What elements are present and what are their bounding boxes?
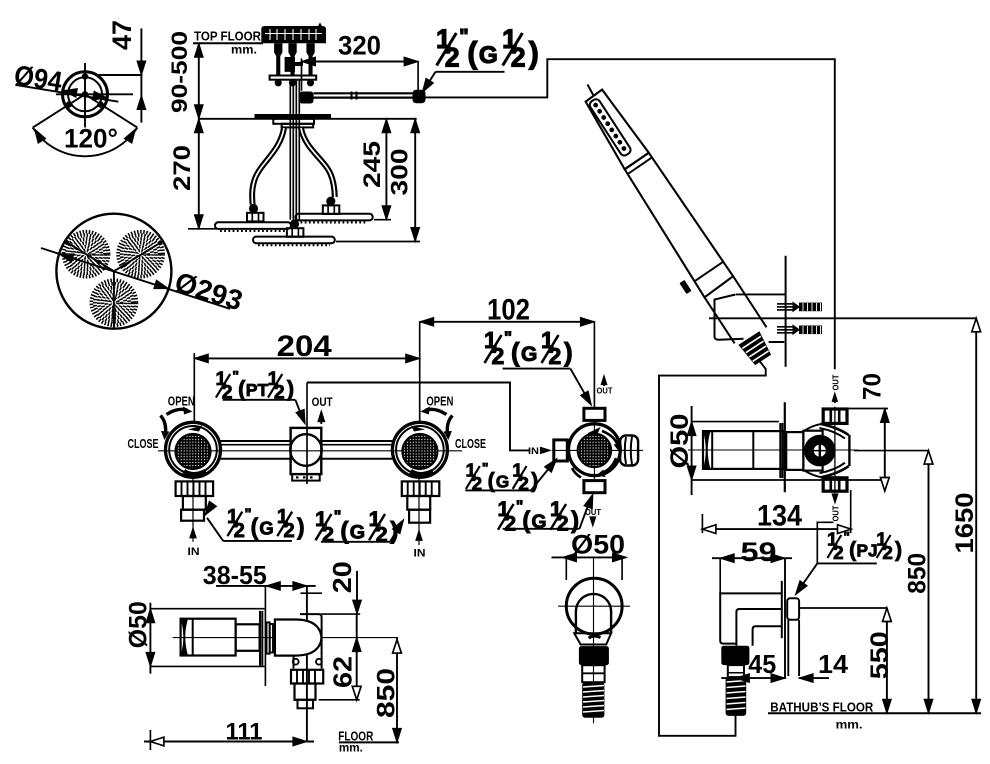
dim 245 line (385, 119, 387, 220)
center body circle (290, 434, 322, 466)
dia label leader O94 (16, 85, 119, 102)
bottom OUT arrow side (834, 494, 836, 499)
top floor line (193, 42, 263, 44)
hose connector 2 (288, 43, 296, 75)
left valve outer ring (166, 422, 221, 477)
dim 14 line (799, 677, 829, 679)
handle end cap dark (703, 431, 711, 469)
label 1/2"(G 1/2) diverter top (484, 327, 573, 369)
svg-text:45: 45 (748, 649, 776, 679)
dim 102 line (420, 321, 595, 323)
svg-text:IN: IN (528, 446, 539, 457)
wall supply fitting (787, 598, 799, 620)
svg-text:mm.: mm. (231, 43, 257, 57)
stippled head bottom (91, 280, 136, 325)
diverter rotation arrow lower-left (572, 468, 581, 478)
ceiling spout flange outer circle (63, 72, 108, 117)
svg-text:245: 245 (359, 141, 386, 188)
stippled head top-left (64, 232, 109, 277)
hose nut hatched (738, 331, 773, 366)
left curved drop pipe (252, 128, 284, 205)
manifold ball 1 (275, 79, 282, 86)
dim 59 extension left / elbow left edge (719, 558, 721, 593)
bracket clamp (715, 295, 785, 343)
svg-text:1650: 1650 (951, 493, 979, 554)
diverter outer ring (569, 424, 621, 476)
svg-text:111: 111 (226, 719, 263, 746)
handle cylinder (703, 431, 784, 469)
pipe body to right valve (321, 440, 392, 442)
wand bottom seam (695, 261, 724, 281)
bracket top line to wall (736, 293, 786, 295)
elbow centerline horizontal (558, 605, 630, 607)
120deg arc (33, 128, 138, 157)
left valve inner ring (169, 426, 217, 474)
svg-text:TOP FLOOR: TOP FLOOR (194, 29, 262, 44)
hose connector 1 (274, 43, 282, 75)
svg-text:62: 62 (328, 656, 358, 688)
front head nut (287, 228, 304, 237)
elbow housing behind (300, 614, 322, 656)
dim 20 line (356, 571, 358, 614)
label 1/2"(G 1/2) diverter left (466, 460, 539, 494)
extension line top dot level (95, 74, 143, 76)
dim 320 extension left (301, 58, 303, 90)
dim 270 line (198, 119, 200, 229)
dim 62 extension (319, 699, 360, 701)
crosshair vertical (84, 63, 86, 128)
side view centerline (688, 449, 858, 451)
elbow hose thread (726, 677, 747, 716)
diverter side handle (620, 435, 638, 465)
left valve nipple (183, 496, 206, 510)
dim 320 line (302, 61, 419, 63)
right valve inner ring (396, 426, 444, 474)
label leader arrow to pipe elbow (424, 72, 436, 91)
svg-text:300: 300 (387, 149, 414, 196)
small screw on wand (679, 280, 691, 294)
dia leader O293 (41, 248, 230, 309)
upper union arcs (821, 424, 849, 435)
dim O50 arrows (552, 556, 627, 558)
crosshair horizontal (56, 93, 133, 95)
diverter centerline horizontal (552, 449, 643, 451)
svg-text:47: 47 (107, 20, 137, 50)
elbow bottom small circles (293, 659, 299, 665)
dim 850 line (928, 451, 930, 714)
label 1/2"(G 1/2) under left valve (227, 506, 305, 542)
O50 box top line (692, 421, 779, 423)
handle seam 1 (711, 431, 713, 469)
OUT up arrow (320, 415, 322, 424)
hand shower wand head (586, 90, 649, 170)
valve dome body (275, 620, 322, 656)
dim 90-500 line (198, 43, 200, 119)
dim 70 line (884, 409, 886, 492)
close arrow right (447, 416, 452, 434)
valve neck rings (267, 622, 270, 653)
dim 320 extension right (417, 62, 419, 91)
stippled head top-right (118, 232, 163, 277)
front head ball joint (290, 219, 299, 228)
handle neck (236, 624, 260, 651)
elbow hose neck (582, 665, 604, 682)
body right edge (848, 435, 850, 466)
diverter centerline vertical (593, 322, 595, 409)
head group outline circle O293 (56, 214, 171, 329)
riser pipe bundle (290, 80, 299, 115)
right head nut (323, 205, 340, 214)
pipe left valve to body (220, 440, 290, 442)
left IN arrow (192, 476, 194, 542)
120deg spread line right (85, 94, 137, 127)
dim 300 line (414, 119, 416, 242)
wall plate (259, 611, 261, 666)
dim 20 reference upper (301, 592, 323, 594)
svg-text:CLOSE: CLOSE (128, 437, 159, 451)
manifold bar (270, 76, 317, 80)
ceiling line (199, 118, 417, 120)
handle cylinder (181, 619, 236, 656)
svg-text:320: 320 (338, 31, 381, 61)
120deg spread line left (33, 94, 85, 127)
manifold ball 2 (289, 79, 296, 86)
label 1/2"(G 1/2) under right valve (315, 506, 398, 546)
outlet tail (298, 700, 314, 709)
dim 134 line (702, 528, 851, 530)
dim 550 reference line (800, 607, 888, 609)
spoke to bottom head (113, 271, 115, 329)
spoke to left head (65, 241, 114, 271)
center body vertical line (306, 383, 308, 485)
bracket height reference line (709, 317, 976, 319)
dim 134 extension right (850, 490, 852, 533)
label underline (436, 71, 505, 73)
close arrow left (161, 416, 166, 434)
wall plate lines (781, 581, 783, 638)
top outlet dot (82, 73, 88, 79)
tiny up arrow (834, 396, 836, 403)
wall screw upper (777, 301, 822, 312)
svg-text:270: 270 (169, 145, 196, 191)
left head nut (247, 213, 264, 222)
dim 111 tick (149, 730, 151, 750)
flexible hose wire route (659, 359, 766, 736)
right head ball joint (326, 197, 335, 206)
right valve outer ring (392, 422, 447, 477)
diverter rotation arrow upper (602, 431, 618, 446)
svg-text:102: 102 (487, 294, 530, 327)
svg-text:90-500: 90-500 (167, 31, 192, 113)
right valve nipple (407, 496, 430, 510)
dimension line 47 vertical (140, 28, 142, 122)
label 1/2"(PT 1/2) (216, 369, 295, 404)
right knob indicator (411, 426, 425, 432)
ceiling flange upper (273, 119, 314, 124)
left knob indicator (188, 426, 202, 432)
elbow inner arch (576, 594, 611, 633)
dim 204 line (194, 357, 419, 359)
svg-text:850: 850 (373, 668, 401, 718)
lower union arcs (821, 466, 849, 477)
valve neck box (786, 432, 803, 470)
wand seam 2 (628, 158, 652, 174)
wall line bottom-left view (306, 585, 308, 742)
svg-text:IN: IN (188, 546, 200, 558)
right valve knob (402, 434, 437, 469)
wire faucet OUT to diverter (307, 383, 529, 451)
wand spray face (588, 98, 632, 158)
svg-text:134: 134 (757, 500, 802, 533)
ceiling plate (255, 114, 332, 119)
valve dark knob circle (804, 435, 836, 467)
svg-text:BATHUB’S FLOOR: BATHUB’S FLOOR (770, 700, 874, 715)
pipe end elbow connector (413, 90, 426, 103)
ceiling spout flange inner circle (68, 77, 102, 111)
svg-text:OPEN: OPEN (168, 395, 195, 409)
right valve tail (409, 510, 430, 523)
svg-text:120°: 120° (64, 124, 118, 154)
label 1/2"(PJ 1/2) (827, 529, 902, 563)
spoke to right head (114, 241, 163, 271)
wall elbow outer contour (720, 593, 782, 643)
mounting rail block (261, 23, 326, 44)
right shower head disc (296, 214, 373, 221)
dim 38-55 extension (264, 585, 266, 686)
svg-text:Ø50: Ø50 (666, 414, 694, 469)
label 1/2"(G 1/2) top (436, 24, 539, 73)
open arrow right (426, 409, 447, 414)
elbow centerline vertical (593, 558, 595, 723)
small dark tick (589, 636, 601, 638)
ceiling flange lower (282, 124, 314, 128)
hose connector 3 (306, 43, 314, 75)
svg-text:59: 59 (741, 537, 777, 567)
dim 70 top extension (824, 408, 888, 410)
horizontal supply pipe (314, 92, 413, 94)
svg-text:Ø50: Ø50 (125, 601, 153, 648)
O50 box top (150, 608, 264, 610)
dim 38-55 line (216, 585, 316, 587)
svg-text:mm.: mm. (339, 741, 363, 755)
svg-text:OPEN: OPEN (426, 395, 453, 409)
outlet hex nut (291, 670, 323, 684)
centerline bottom-left view (173, 637, 398, 639)
dim 20 reference lower (321, 613, 360, 615)
diverter knob indicator (587, 427, 601, 435)
svg-text:204: 204 (277, 330, 332, 363)
diverter rotation arrow lower (602, 458, 616, 473)
front shower head disc (253, 237, 335, 244)
diverter bottom port (584, 481, 605, 493)
svg-text:850: 850 (904, 553, 932, 594)
elbow trapezoid (574, 633, 611, 644)
wand shaft to hose nut (705, 297, 735, 343)
diverter knob (578, 434, 612, 468)
dim O50 line (149, 603, 151, 674)
center dot (82, 91, 88, 97)
dim 111 line (144, 741, 314, 743)
left valve base arc (184, 471, 206, 474)
top port side view (823, 409, 847, 423)
wall line at valve (784, 402, 786, 492)
dim 850 left line (396, 638, 398, 743)
dim O50 extension lines (565, 557, 567, 580)
svg-text:CLOSE: CLOSE (455, 437, 486, 451)
label 1/2"(G 1/2) diverter bottom (498, 498, 580, 536)
dim 45 line (721, 677, 785, 679)
right valve base arc (411, 471, 433, 474)
O50 box bottom (150, 665, 264, 667)
wall line at bracket (785, 256, 787, 367)
wire from pipe elbow to hand shower column (424, 59, 835, 369)
svg-text:IN: IN (414, 547, 426, 559)
elbow hose thread (582, 682, 604, 718)
handle seam 2 (752, 431, 754, 469)
wall elbow pipe inner (753, 626, 782, 645)
wall supply pipe down (787, 620, 789, 676)
left valve knob (175, 434, 210, 469)
svg-text:mm.: mm. (836, 718, 863, 732)
right outlet dot (97, 101, 103, 107)
svg-text:OUT: OUT (312, 395, 334, 409)
wall elbow pipe top (736, 609, 781, 646)
pipe tee connector (299, 92, 314, 104)
left valve hex nut (176, 481, 214, 496)
center body bottom strip (292, 474, 320, 481)
top OUT arrow (603, 379, 605, 386)
dim 850 reference line (854, 450, 929, 452)
wire valve out to wall elbow (817, 522, 833, 563)
elbow side lines (293, 656, 295, 669)
bathtub floor line (768, 712, 981, 714)
left valve tail (181, 510, 204, 521)
svg-text:70: 70 (859, 373, 887, 400)
right valve hex nut (402, 481, 440, 496)
svg-text:OUT: OUT (597, 385, 614, 395)
centerline through faucet (158, 450, 462, 452)
manifold ball 3 (307, 79, 314, 86)
center drop pipe (290, 119, 299, 220)
svg-text:OUT: OUT (831, 505, 841, 522)
valve wall plate (779, 423, 781, 478)
center body (291, 428, 322, 474)
elbow hose nut (579, 646, 609, 665)
pipe union joint (351, 92, 353, 100)
dim 204 extension left (193, 353, 195, 423)
handle seam (192, 619, 194, 656)
svg-text:20: 20 (327, 561, 357, 593)
right curved drop pipe (301, 128, 335, 197)
left shower head disc (215, 222, 291, 229)
floor line left view (339, 741, 399, 743)
O50 box bottom line (692, 479, 888, 481)
dim 270 extension (188, 228, 222, 230)
open arrow left (167, 409, 188, 414)
svg-text:OUT: OUT (831, 374, 841, 391)
valve vertical centerline (834, 407, 836, 493)
right IN arrow (418, 476, 420, 545)
wall elbow circle (566, 578, 622, 634)
left outlet dot (66, 101, 72, 107)
dim O50 line (691, 406, 693, 495)
valve body box (803, 431, 822, 471)
wall screw lower (777, 324, 822, 335)
diverter top port (584, 408, 605, 420)
left head ball joint (249, 204, 258, 213)
dim 134 extension left (701, 514, 703, 533)
dim 300 extension (336, 241, 420, 243)
diverter left port (554, 440, 568, 461)
dim 1650 line (975, 318, 977, 713)
wand tip tick (588, 85, 594, 96)
dim 204 extension right / dim 102 extension (419, 322, 421, 423)
middle hose elbow (285, 57, 303, 72)
svg-text:14: 14 (818, 649, 849, 679)
outlet pipe (295, 684, 316, 700)
elbow hose neck (728, 665, 744, 677)
hand shower wand body (625, 153, 733, 297)
dim 59 line (712, 557, 792, 559)
elbow hose nut black (721, 646, 749, 665)
svg-text:550: 550 (866, 631, 894, 679)
dim 550 line (886, 608, 888, 713)
bottom port side view (823, 478, 847, 491)
handle end cap dark (181, 619, 188, 656)
dim 62 line (356, 614, 358, 700)
dim 245 extension (374, 219, 391, 221)
